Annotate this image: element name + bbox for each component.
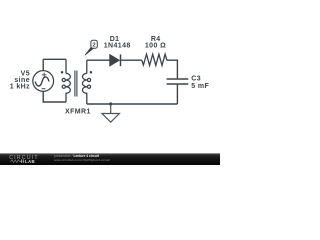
CircuitLab logo resistor zigzag <box>10 160 21 163</box>
XFMR1 core bars <box>75 71 77 97</box>
svg-text:1N4148: 1N4148 <box>104 43 131 50</box>
wire node2 corner to diode <box>87 59 110 61</box>
XFMR1 secondary phase dot <box>90 71 93 74</box>
wire resistor to C3 corner <box>167 60 178 78</box>
transformer XFMR1 secondary winding <box>82 60 90 104</box>
V5 minus sign <box>42 88 46 90</box>
wire primary top rail <box>43 58 66 60</box>
node 2 flag pointer <box>85 47 93 55</box>
ground junction dot <box>109 102 112 105</box>
svg-text:C3: C3 <box>191 75 201 82</box>
capacitor C3 top plate <box>167 78 189 80</box>
ground stub <box>110 104 112 114</box>
wire V5 top lead <box>42 59 44 70</box>
wire secondary bottom rail <box>87 103 178 105</box>
svg-text:LAB: LAB <box>25 159 35 164</box>
svg-text:XFMR1: XFMR1 <box>65 108 91 115</box>
wire V5 bottom lead <box>43 91 66 102</box>
svg-text:100 Ω: 100 Ω <box>145 43 166 50</box>
V5 plus sign <box>42 73 47 77</box>
svg-text:www.circuitlab.com/c/3pk59j/le: www.circuitlab.com/c/3pk59j/lect4-circui… <box>54 158 110 162</box>
XFMR1 primary phase dot <box>61 71 64 74</box>
voltage source V5 circle <box>33 71 54 92</box>
svg-text:1 kHz: 1 kHz <box>10 83 30 90</box>
wire C3 bottom lead <box>176 85 178 104</box>
V5 sine symbol <box>35 77 49 86</box>
node 2 flag box <box>91 40 97 48</box>
diode D1 triangle <box>110 55 120 67</box>
resistor R4 zigzag <box>142 54 167 65</box>
voltage source V5 labels <box>10 70 30 90</box>
transformer XFMR1 primary winding <box>62 59 70 102</box>
svg-text:5 mF: 5 mF <box>191 83 209 90</box>
capacitor C3 bottom plate <box>167 83 189 85</box>
diode D1 cathode bar <box>120 54 122 66</box>
ground symbol triangle <box>102 114 119 123</box>
CircuitLab logo capacitor glyph <box>20 159 24 163</box>
svg-text:2: 2 <box>92 43 96 49</box>
wire diode to resistor <box>121 59 142 61</box>
